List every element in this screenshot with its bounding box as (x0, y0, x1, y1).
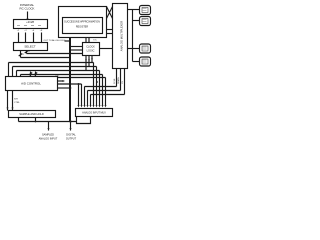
svg-text:÷1: ÷1 (17, 29, 20, 32)
svg-text:CS: CS (122, 80, 124, 84)
svg-text:÷2/4/8: ÷2/4/8 (26, 20, 34, 24)
svg-text:RC CLOCK: RC CLOCK (20, 6, 35, 10)
svg-text:SAMPLE AND HOLD: SAMPLE AND HOLD (19, 112, 44, 116)
svg-text:SELECT: SELECT (24, 45, 35, 49)
svg-text:CLOCK: CLOCK (86, 46, 95, 49)
svg-text:LOGIC: LOGIC (87, 50, 95, 53)
svg-text:DIGITAL: DIGITAL (66, 134, 76, 137)
svg-text:ANALOG INPUT: ANALOG INPUT (39, 137, 58, 140)
svg-text:4: 4 (23, 54, 25, 56)
svg-text:÷4: ÷4 (32, 29, 35, 32)
svg-text:SUCCESSIVE APPROXIMATION: SUCCESSIVE APPROXIMATION (64, 20, 100, 23)
svg-text:ANALOG MULTIPLEXER: ANALOG MULTIPLEXER (120, 21, 124, 51)
svg-text:REGISTER: REGISTER (76, 26, 88, 29)
svg-text:CTRL: CTRL (14, 102, 20, 104)
svg-text:OSC: OSC (55, 76, 60, 78)
svg-text:OUTPUT: OUTPUT (66, 137, 77, 140)
svg-text:SCLK: SCLK (114, 78, 116, 84)
svg-text:T/C: T/C (93, 40, 97, 42)
svg-text:÷2: ÷2 (24, 29, 27, 32)
svg-text:OUT TO ALL BLOCKS: OUT TO ALL BLOCKS (44, 39, 66, 42)
svg-text:S/H: S/H (14, 99, 18, 101)
svg-text:ANALOG INPUT MUX: ANALOG INPUT MUX (82, 111, 106, 114)
svg-text:A/D CONTROL: A/D CONTROL (21, 81, 41, 85)
svg-text:2: 2 (29, 51, 31, 53)
svg-text:÷8: ÷8 (40, 29, 43, 32)
svg-text:SAMPLED: SAMPLED (42, 134, 54, 137)
svg-text:SDATA: SDATA (117, 77, 120, 84)
